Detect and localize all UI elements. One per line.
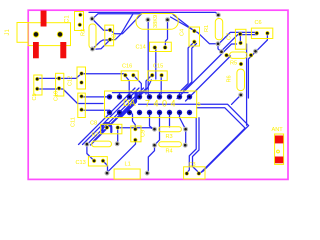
svg-text:C15: C15	[153, 64, 163, 70]
svg-text:C9: C9	[141, 130, 147, 137]
svg-text:C11: C11	[71, 117, 77, 127]
svg-text:R6: R6	[227, 75, 233, 82]
svg-text:R4: R4	[166, 149, 173, 155]
svg-text:C8: C8	[90, 121, 97, 127]
svg-text:C5: C5	[32, 93, 38, 100]
svg-text:C6: C6	[255, 20, 262, 26]
svg-text:38K9: 38K9	[153, 15, 159, 28]
svg-text:C7: C7	[227, 33, 233, 40]
svg-text:ANT: ANT	[272, 127, 284, 133]
svg-text:L1: L1	[125, 162, 131, 168]
svg-text:7404: 7404	[145, 99, 179, 109]
svg-text:C10: C10	[54, 91, 60, 101]
svg-text:C12: C12	[68, 76, 74, 86]
svg-text:C14: C14	[136, 45, 146, 51]
svg-text:DA: DA	[123, 98, 136, 108]
svg-text:C4: C4	[180, 29, 186, 36]
svg-text:R1: R1	[204, 25, 210, 32]
svg-text:C1: C1	[65, 15, 71, 23]
svg-text:R7: R7	[92, 133, 99, 139]
svg-text:R2: R2	[81, 29, 87, 36]
svg-text:C16: C16	[122, 64, 132, 70]
svg-text:5: 5	[198, 102, 201, 108]
svg-text:C3: C3	[189, 162, 196, 168]
svg-text:C13: C13	[76, 160, 86, 166]
svg-text:R5: R5	[230, 61, 237, 67]
svg-text:C2: C2	[112, 34, 118, 41]
svg-text:R3: R3	[166, 134, 173, 140]
svg-text:J1: J1	[5, 29, 11, 36]
